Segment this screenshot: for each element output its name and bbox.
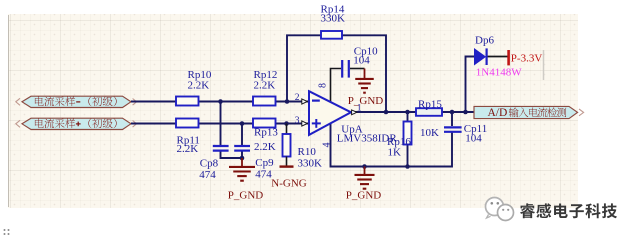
ground P_GND bottom (rail)	[346, 167, 382, 202]
svg-text:R10: R10	[298, 146, 317, 158]
diode Dp6 1N4148W	[475, 35, 523, 79]
wire diode riser	[466, 57, 475, 113]
junction dot rail Rp16	[405, 164, 410, 169]
pin 3 marker	[302, 121, 308, 126]
svg-text:P_GND: P_GND	[346, 190, 382, 202]
svg-text:P_GND: P_GND	[228, 189, 264, 201]
wire Cp8 riser	[220, 102, 222, 146]
svg-text:2.2K: 2.2K	[177, 143, 199, 155]
svg-text:330K: 330K	[298, 157, 323, 169]
junction dot Rp16 top	[405, 110, 410, 115]
port 电流采样+（初级）	[16, 118, 137, 129]
svg-text:474: 474	[199, 169, 216, 181]
svg-text:2.2K: 2.2K	[254, 141, 276, 153]
watermark logo	[486, 198, 514, 221]
ground P_GND middle (Cp8/Cp9)	[228, 158, 264, 201]
wire R10 riser	[286, 124, 288, 135]
capacitor Cp11	[444, 123, 487, 144]
wire inverting input net	[131, 101, 309, 103]
power P-3.3V	[509, 50, 543, 65]
wire Cp9 riser	[241, 124, 243, 146]
wire R10 lower stub	[286, 157, 288, 166]
svg-text:3: 3	[295, 116, 300, 126]
junction dot rail ground	[362, 164, 367, 169]
wire Cp10 to ground	[350, 68, 365, 70]
capacitor Cp8	[199, 146, 228, 181]
wire Cp8/Cp9 bottom join	[221, 151, 243, 158]
net N-GNG bar	[271, 167, 306, 190]
svg-text:N-GNG: N-GNG	[271, 178, 306, 190]
wire feedback loop	[287, 35, 386, 112]
junction dot feedback output	[384, 110, 389, 115]
svg-text:P_GND: P_GND	[348, 95, 384, 107]
svg-text:2.2K: 2.2K	[254, 80, 276, 92]
junction dot Cp11 top	[450, 110, 455, 115]
sheet left edge line	[8, 15, 10, 207]
junction dot Cp8 top	[218, 99, 223, 104]
svg-text:A/D: A/D	[488, 107, 508, 119]
svg-text:10K: 10K	[420, 127, 439, 139]
wire diode cathode to power	[488, 56, 508, 58]
resistor Rp10	[176, 69, 212, 106]
resistor Rp15	[416, 98, 442, 139]
svg-text:Cp9: Cp9	[255, 157, 274, 169]
op-amp UpA LMV358IDR	[309, 91, 397, 144]
wire Cp11 branch	[451, 112, 453, 126]
svg-text:104: 104	[353, 55, 370, 67]
svg-text:1N4148W: 1N4148W	[476, 66, 522, 78]
svg-text:1K: 1K	[388, 147, 402, 159]
capacitor Cp9	[234, 146, 274, 181]
junction dot R10 tap	[284, 121, 289, 126]
pin 2 marker	[302, 99, 308, 104]
svg-text:Cp8: Cp8	[200, 157, 219, 169]
junction dot Cp9 top	[240, 121, 245, 126]
corner mark	[4, 229, 10, 235]
resistor Rp16 vertical	[387, 122, 412, 159]
wire non-inverting input net	[131, 123, 309, 125]
junction dot diode riser	[463, 110, 468, 115]
faint mark right edge	[543, 50, 545, 80]
svg-text:Dp6: Dp6	[475, 35, 494, 47]
wire Rp16 branch	[407, 112, 409, 167]
svg-text:2.2K: 2.2K	[188, 80, 210, 92]
svg-text:LMV358IDR: LMV358IDR	[337, 133, 398, 145]
resistor Rp14	[321, 3, 346, 38]
port 电流采样-（初级）	[16, 96, 137, 107]
junction dot cap join	[240, 156, 245, 161]
svg-text:330K: 330K	[321, 13, 346, 25]
wire ground rail	[331, 120, 453, 167]
svg-text:474: 474	[255, 169, 272, 181]
pin 8 wire	[331, 69, 342, 102]
resistor R10 vertical	[283, 134, 323, 169]
pin 1 marker	[352, 110, 357, 115]
junction dot feedback left	[285, 99, 290, 104]
svg-text:1: 1	[357, 104, 362, 114]
svg-text:Rp15: Rp15	[418, 98, 442, 110]
svg-text:4: 4	[322, 143, 333, 148]
resistor Rp13	[253, 119, 278, 154]
svg-text:Rp13: Rp13	[254, 126, 278, 138]
port A/D输入电流检测	[474, 106, 584, 119]
capacitor Cp10	[342, 46, 378, 78]
ground P_GND top (Cp10)	[348, 69, 384, 108]
svg-text:8: 8	[318, 83, 329, 88]
svg-text:2: 2	[295, 93, 300, 103]
resistor Rp12	[253, 69, 277, 106]
schematic sheet background	[8, 14, 578, 208]
svg-text:104: 104	[465, 132, 482, 144]
watermark text 睿感电子科技	[520, 203, 617, 218]
resistor Rp11	[176, 119, 200, 155]
wire output net	[352, 111, 474, 113]
svg-text:P-3.3V: P-3.3V	[511, 53, 543, 65]
